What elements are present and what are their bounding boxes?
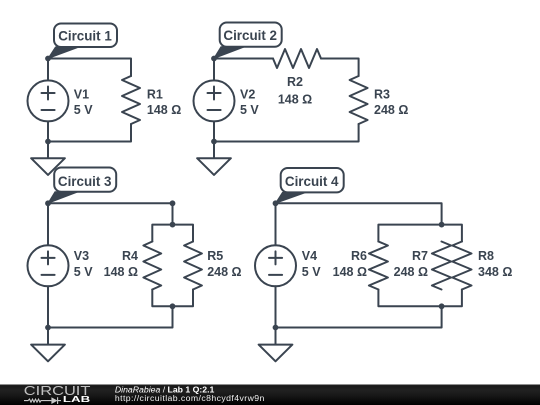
svg-text:248 Ω: 248 Ω [394, 265, 428, 279]
node: circuit 4 lower junction [439, 303, 445, 309]
svg-text:148 Ω: 148 Ω [333, 265, 367, 279]
svg-text:148 Ω: 148 Ω [147, 103, 181, 117]
voltage source V3 [28, 245, 69, 286]
resistor R7 [432, 242, 451, 290]
wire: circuit 2 top right [321, 59, 359, 77]
label R8 value [478, 249, 512, 279]
node: circuit 3 upper junction [170, 222, 176, 228]
svg-text:148 Ω: 148 Ω [104, 265, 138, 279]
node: circuit 3 top corner [170, 200, 176, 206]
callout label Circuit 4 [276, 168, 344, 203]
label R6 value [333, 249, 367, 279]
logo resistor zigzag [24, 399, 51, 402]
wire: circuit 3 top [48, 203, 173, 224]
svg-text:http://circuitlab.com/c8hcydf4: http://circuitlab.com/c8hcydf4vrw9n [115, 393, 265, 403]
wire: circuit 4 top bar [378, 225, 462, 242]
voltage source V4 [255, 245, 296, 286]
svg-text:R8: R8 [478, 249, 494, 263]
wire: circuit 1 top [48, 59, 131, 77]
node: circuit 3 top-left [45, 200, 51, 206]
node: circuit 4 bottom-left [273, 325, 279, 331]
voltage source V1 [28, 80, 69, 121]
label R2 value [278, 75, 312, 107]
svg-text:5 V: 5 V [240, 103, 259, 117]
wire: circuit 4 top [276, 203, 442, 224]
resistor R4 [143, 242, 161, 290]
resistor R1 [122, 76, 140, 124]
callout label Circuit 2 [214, 23, 282, 59]
svg-text:248 Ω: 248 Ω [374, 103, 408, 117]
label V1 value [74, 87, 93, 117]
svg-text:V3: V3 [74, 249, 89, 263]
resistor R3 [350, 76, 368, 124]
wire: circuit 3 source bottom stub [47, 286, 49, 344]
label V3 value [74, 249, 93, 279]
node: circuit 3 lower junction [170, 303, 176, 309]
svg-text:R4: R4 [122, 249, 138, 263]
label R4 value [104, 249, 138, 279]
wire: circuit 1 source bottom stub [47, 121, 49, 158]
svg-text:R6: R6 [351, 249, 367, 263]
svg-text:248 Ω: 248 Ω [207, 265, 241, 279]
label R7 value [394, 249, 428, 279]
wire: circuit 4 bottom [276, 306, 442, 327]
callout label Circuit 1 [48, 24, 117, 59]
node: circuit 4 top-left [273, 200, 279, 206]
wire: circuit 2 bottom [214, 124, 359, 142]
svg-text:R1: R1 [147, 87, 163, 101]
svg-text:5 V: 5 V [74, 265, 93, 279]
svg-text:V4: V4 [302, 249, 317, 263]
wire: circuit 1 bottom [48, 124, 131, 142]
logo diode [51, 397, 57, 404]
wire: circuit 2 source bottom stub [213, 121, 215, 158]
svg-text:348 Ω: 348 Ω [478, 265, 512, 279]
node: circuit 2 top [211, 56, 217, 62]
node: circuit 4 upper junction [439, 222, 445, 228]
wire: circuit 1 source top stub [47, 59, 49, 81]
svg-text:R3: R3 [374, 87, 390, 101]
node: circuit 2 bottom [211, 139, 217, 145]
ground: circuit 1 [31, 158, 65, 175]
svg-text:5 V: 5 V [74, 103, 93, 117]
label R3 value [374, 87, 408, 117]
resistor R2 [273, 49, 321, 68]
wire: circuit 3 bottom bar [152, 290, 193, 307]
svg-text:R5: R5 [207, 249, 223, 263]
callout label Circuit 3 [48, 168, 116, 204]
wire: circuit 3 bottom [48, 306, 173, 327]
wire: circuit 2 source top stub [213, 59, 215, 81]
svg-text:5 V: 5 V [302, 265, 321, 279]
node: circuit 1 top [45, 56, 51, 62]
svg-text:LAB: LAB [63, 395, 91, 404]
voltage source V2 [194, 80, 235, 121]
wire: circuit 3 source top stub [47, 203, 49, 245]
footer bar [0, 384, 540, 405]
wire: circuit 4 source bottom stub [275, 286, 277, 344]
node: circuit 1 bottom [45, 139, 51, 145]
node: circuit 3 bottom-left [45, 325, 51, 331]
label V4 value [302, 249, 321, 279]
resistor R5 [184, 242, 202, 290]
ground: circuit 3 [31, 345, 65, 362]
svg-text:R7: R7 [412, 249, 428, 263]
label V2 value [240, 87, 259, 117]
svg-text:V2: V2 [240, 87, 255, 101]
wire: circuit 4 source top stub [275, 203, 277, 245]
svg-text:Circuit 4: Circuit 4 [285, 174, 339, 189]
resistor R8 [452, 242, 471, 290]
svg-text:V1: V1 [74, 87, 89, 101]
ground: circuit 4 [259, 345, 293, 362]
ground: circuit 2 [197, 158, 231, 175]
wire: circuit 2 top [214, 58, 273, 60]
resistor R6 [369, 242, 388, 290]
wire: circuit 3 top bar [152, 225, 193, 242]
label R1 value [147, 87, 181, 117]
svg-text:Circuit 3: Circuit 3 [58, 174, 112, 189]
svg-text:Circuit 2: Circuit 2 [223, 28, 277, 43]
svg-text:148 Ω: 148 Ω [278, 93, 312, 107]
label R5 value [207, 249, 241, 279]
svg-text:R2: R2 [287, 75, 303, 89]
svg-text:Circuit 1: Circuit 1 [58, 29, 112, 44]
wire: circuit 4 bottom bar [378, 290, 462, 307]
